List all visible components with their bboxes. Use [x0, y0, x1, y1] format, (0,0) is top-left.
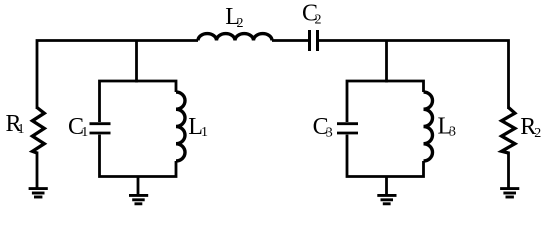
wire right tank rectangle lower part — [347, 135, 424, 177]
capacitor C1 — [90, 124, 111, 133]
svg-text:1: 1 — [18, 122, 25, 137]
wire left tank rectangle lower part — [100, 135, 177, 177]
wire between L2 and C2 — [272, 39, 308, 42]
resistor R2 — [502, 108, 515, 154]
wire right tank to ground — [385, 177, 388, 196]
svg-text:2: 2 — [237, 16, 244, 31]
svg-text:2: 2 — [315, 13, 322, 28]
inductor L1 — [176, 92, 185, 161]
inductor L3 — [424, 92, 433, 161]
wire junction stub to left tank — [135, 41, 138, 83]
wire left tank rectangle upper part — [100, 81, 177, 122]
wire R2 to ground — [507, 152, 510, 189]
wire right tank rectangle upper part — [347, 81, 424, 122]
svg-text:2: 2 — [534, 126, 541, 141]
capacitor C2 — [310, 30, 318, 51]
inductor L2 — [198, 34, 272, 41]
capacitor C3 — [337, 124, 358, 133]
wire R1 to ground — [36, 152, 39, 189]
ground below left tank — [129, 195, 148, 203]
wire top-left horizontal and left vertical drop — [37, 41, 198, 110]
ground below R1 — [29, 189, 48, 197]
wire junction stub to right tank — [385, 41, 388, 83]
wire top-right horizontal and right vertical drop — [319, 41, 509, 110]
wire left tank to ground — [137, 177, 140, 196]
resistor R1 — [32, 108, 44, 154]
ground below right tank — [377, 195, 396, 203]
svg-text:1: 1 — [81, 125, 88, 140]
svg-text:3: 3 — [326, 125, 333, 140]
svg-text:3: 3 — [449, 125, 456, 140]
ground below R2 — [500, 189, 519, 197]
svg-text:1: 1 — [201, 125, 208, 140]
